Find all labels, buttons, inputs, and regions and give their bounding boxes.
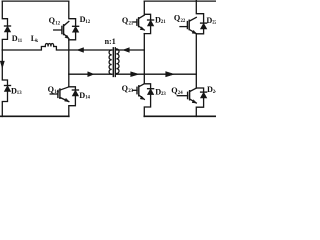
- wire left leg1 mid-to-D13: [2, 50, 7, 86]
- label D12: [80, 15, 91, 25]
- wire secondary lower: [116, 73, 196, 75]
- diode D21: [148, 19, 154, 21]
- wire right leg1 mid section: [143, 34, 145, 84]
- svg-text:22: 22: [212, 21, 216, 26]
- svg-text:k: k: [35, 39, 38, 44]
- transistor Q14: [50, 87, 69, 102]
- wire D14 lower + rejoin: [69, 96, 76, 117]
- svg-text:23: 23: [161, 92, 166, 97]
- label Q24: [171, 86, 183, 96]
- arrow current left on secondary upper wire: [123, 48, 129, 53]
- arrow current right on primary lower wire: [88, 72, 94, 77]
- wire D24 lower + rejoin: [196, 98, 203, 117]
- label D21: [155, 15, 166, 25]
- label Lk: [31, 34, 39, 44]
- wire right leg2 mid section: [195, 34, 197, 88]
- svg-text:14: 14: [54, 90, 59, 95]
- inductor Lk coil: [45, 44, 53, 47]
- diode D11: [5, 25, 11, 27]
- svg-text:24: 24: [178, 91, 183, 96]
- label Q23: [122, 84, 134, 94]
- diode D12: [73, 25, 79, 27]
- wire right leg2 D24 bump: [196, 88, 203, 92]
- diode D14: [72, 89, 78, 91]
- svg-text:24: 24: [213, 90, 216, 95]
- svg-text:23: 23: [128, 89, 133, 94]
- wire right leg1 D23 bump: [144, 84, 150, 89]
- wire primary lower: [69, 73, 112, 75]
- transistor Q23: [133, 84, 145, 100]
- wire right leg2 upper (stub above rail): [196, 0, 203, 23]
- wire secondary upper: [116, 49, 144, 51]
- label D23: [155, 87, 166, 97]
- label Q21: [122, 16, 134, 26]
- wire top rail left: [2, 0, 69, 2]
- wire D23 lower + rejoin: [144, 94, 150, 116]
- transistor Q24: [177, 88, 196, 103]
- transformer T1 primary winding: [109, 50, 112, 74]
- wire D21 lower + rejoin: [144, 26, 150, 34]
- svg-text:12: 12: [85, 20, 90, 25]
- circuit schematic: dual active bridge converter: [0, 0, 216, 120]
- svg-text:n:1: n:1: [105, 37, 116, 46]
- label D14: [79, 91, 90, 101]
- wire left leg1 upper feed: [2, 1, 7, 26]
- svg-text:11: 11: [18, 39, 23, 44]
- transistor Q21: [134, 15, 145, 30]
- wire D13 lower + rejoin to bottom rail: [2, 91, 7, 116]
- arrow current iLk left on primary upper wire: [77, 48, 83, 53]
- wire right leg1 upper feed: [144, 1, 150, 20]
- wire D12 lower + rejoin: [69, 32, 76, 40]
- wire left leg2 mid section: [68, 40, 70, 87]
- label Q22: [174, 14, 186, 24]
- diode D22: [201, 22, 207, 24]
- arrow current right on secondary lower wire (near leg1): [131, 72, 139, 77]
- svg-text:22: 22: [181, 19, 186, 24]
- transistor Q12: [54, 21, 69, 38]
- transformer core: [113, 48, 115, 77]
- wire bottom rail right: [144, 115, 216, 117]
- svg-text:13: 13: [17, 91, 22, 96]
- wire D11 lower + rejoin jog: [2, 32, 7, 50]
- diode D23: [148, 88, 154, 90]
- label n:1 transformer ratio: [105, 37, 116, 46]
- arrow current right on secondary lower wire (mid): [166, 72, 174, 77]
- wire left leg2 D14 bump: [69, 87, 76, 90]
- label D22: [206, 16, 217, 26]
- arrow current i1 down on left rail: [0, 61, 4, 68]
- svg-text:21: 21: [129, 21, 134, 26]
- wire top rail right: [144, 0, 216, 2]
- wire D22 lower + rejoin: [196, 29, 203, 34]
- svg-text:21: 21: [161, 20, 166, 25]
- wire bottom rail left: [0, 115, 69, 117]
- svg-text:12: 12: [55, 21, 60, 26]
- diode D24: [201, 91, 207, 93]
- label Q12: [49, 16, 61, 26]
- label D24: [207, 85, 218, 95]
- svg-text:14: 14: [85, 96, 90, 101]
- label D11: [12, 34, 23, 44]
- wire left leg2 upper: [69, 1, 76, 26]
- transformer T1 secondary winding: [116, 49, 119, 74]
- wire primary upper with inductor Lk: [2, 47, 45, 51]
- transistor Q22: [180, 17, 196, 33]
- label Q14: [48, 85, 60, 95]
- label D13: [11, 86, 22, 96]
- diode D13: [5, 85, 11, 87]
